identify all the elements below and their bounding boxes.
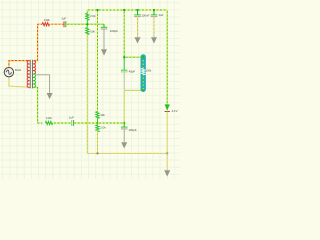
ground arrow bottom-right [164,170,170,176]
wire: R6 to C7 [53,122,71,124]
crystal section top wire [124,56,143,58]
svg-text:10k: 10k [100,113,105,117]
ground wire below C2 [103,29,105,49]
ground wire below C6 [153,17,155,37]
capacitor C1 1uF (top) [64,21,66,27]
capacitor C6 1uF (top rail to ground) [151,10,158,17]
post dot capsule top [142,56,144,58]
svg-text:1uF: 1uF [69,115,74,119]
node B junction dot [96,122,98,124]
wire R2 to node A [86,20,88,27]
transformer T1 primary coil [27,61,29,88]
wire: R5 down to bottom rail [97,132,99,154]
wire: AC source bottom to transformer primary bottom [9,78,30,88]
capacitor C7 1uF (bottom) [72,120,74,126]
svg-text:110k: 110k [44,18,51,22]
junction dot (97.5,153) [96,152,98,154]
wire: top rail down to crystal section x=124.2 [123,10,125,57]
transformer secondary bottom half (green) [33,74,35,87]
divider chain B x=97.5 : wire from top rail down [97,10,99,112]
capacitor C3 45pF top lead [123,57,125,70]
wire R4 to node B [97,119,99,125]
zener diode D1 [165,104,170,111]
resistor R3 10k [86,28,89,35]
svg-text:100pF: 100pF [110,29,118,33]
resistor R5 2.0k (bottom chain) [96,125,99,132]
inductor L1 (selected, capsule body) [141,55,146,92]
capacitor C4 100pF (bottom, to ground) [121,123,128,129]
svg-text:2.0k: 2.0k [100,126,106,130]
junction dot crystal top [123,56,125,58]
resistor R6 110k (bottom) [45,121,52,124]
junction dot (167.2,153) [166,152,168,154]
ground wire below C4 [123,129,125,142]
wire: bottom rail to ground bottom-right [166,153,168,170]
transformer core [30,60,32,89]
junction dot at (124.2,123) [123,122,125,124]
junction dot (154,10) [153,9,155,11]
ground wire below C5 [137,17,139,37]
resistor R4 10k (bottom chain) [96,112,99,119]
junction dot (124.2,10) [123,9,125,11]
svg-text:1uF: 1uF [61,16,66,20]
wire: R3 down to bottom rail [86,34,88,153]
node A junction dot [86,23,88,25]
svg-text:110k: 110k [46,116,53,120]
top rail wire y=10 [87,9,167,11]
junction dot (97.5,10) [96,9,98,11]
capacitor C3 bottom lead [123,72,125,90]
resistor R2 2.0k [86,13,89,20]
svg-text:60Hz: 60Hz [15,68,22,72]
crystal section bottom wire [124,89,143,91]
post dot capsule bottom [142,89,144,91]
bottom rail wire y=153 [87,152,167,154]
ground arrow below center tap [47,93,53,99]
ground arrow below C2 [101,49,107,55]
svg-text:1uF: 1uF [158,13,163,17]
capacitor C5 100nF (top rail to ground) [134,10,141,17]
resistor R1 110k (top) [42,23,49,26]
ground arrow below C6 [151,37,157,43]
svg-text:4.1V: 4.1V [172,109,178,113]
divider chain A x=87.3 : wire from top rail [86,10,88,13]
svg-text:100nF: 100nF [141,14,149,18]
wire: transformer secondary bottom down to bottom-left row [33,87,42,123]
wire: AC source top to transformer primary top [9,61,30,67]
ground arrow below C5 [135,37,141,43]
capacitor C2 100pF (top, to ground) [101,24,108,29]
transformer secondary top half (red) [33,61,35,74]
svg-text:2.0k: 2.0k [90,14,96,18]
junction dot (137.5,10) [136,9,138,11]
ground arrow below C4 [121,142,127,148]
svg-text:10k: 10k [90,30,95,34]
wire: crystal section down to node B row [123,90,125,123]
svg-text:100k: 100k [146,69,152,72]
wire: node B to crystal bottom junction [98,122,125,124]
wire: C1 to divider node A [66,23,87,25]
wire: node A to 100pF cap stub [87,23,104,25]
AC voltage source V1 [4,68,13,77]
wire: secondary top terminal up to top-left row [33,24,42,60]
svg-text:45pF: 45pF [129,69,136,73]
right rail wire from top rail down to zener [166,10,168,104]
capacitor C3 45pF plates [121,70,128,72]
svg-text:100pF: 100pF [128,128,136,132]
wire: zener down to bottom rail [166,112,168,154]
wire: R1 to C1 [50,23,64,25]
wire: C7 to node B [74,122,98,124]
transformer center tap wire to ground [36,75,49,93]
